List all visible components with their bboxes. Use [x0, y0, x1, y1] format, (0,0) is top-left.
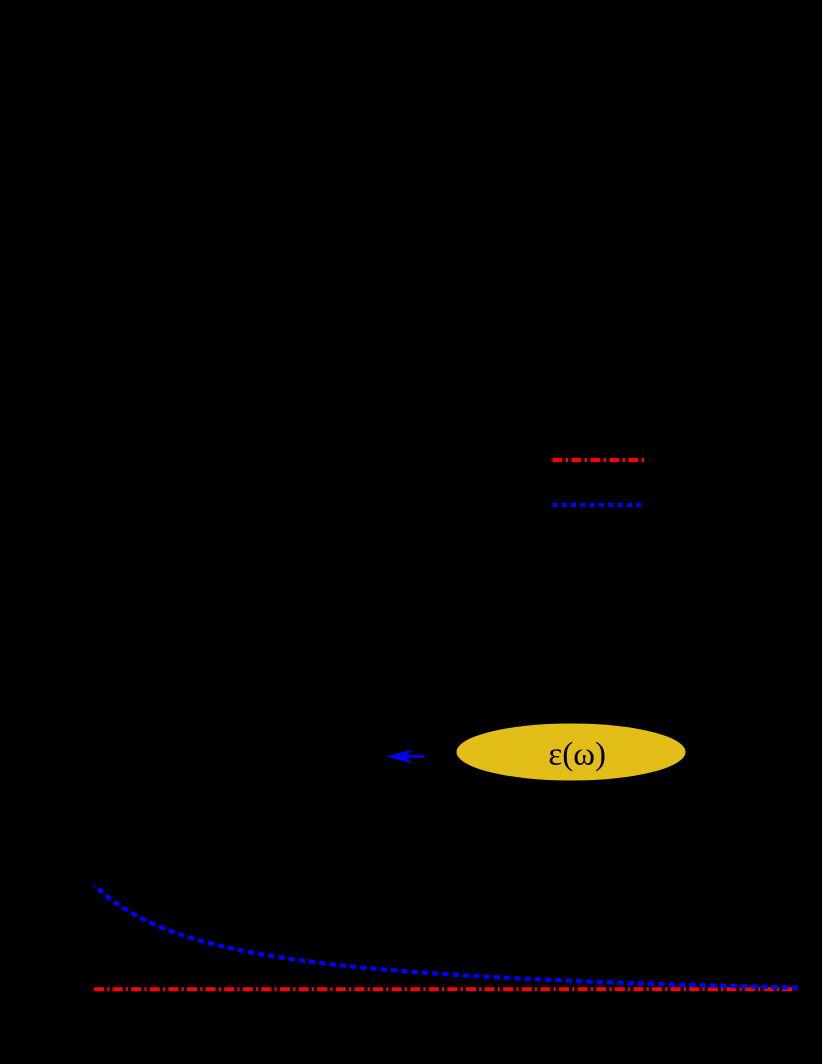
red dash-dot horizontal line: [94, 987, 796, 991]
gold ellipse callout: [457, 724, 686, 781]
legend sample blue dotted line: [553, 503, 645, 507]
blue dashed decay curve: [94, 885, 798, 987]
blue arrow shaft: [403, 755, 424, 758]
legend sample red dash-dot line: [553, 458, 645, 462]
blue arrow head: [386, 750, 413, 763]
svg-text:ε(ω): ε(ω): [548, 736, 606, 772]
